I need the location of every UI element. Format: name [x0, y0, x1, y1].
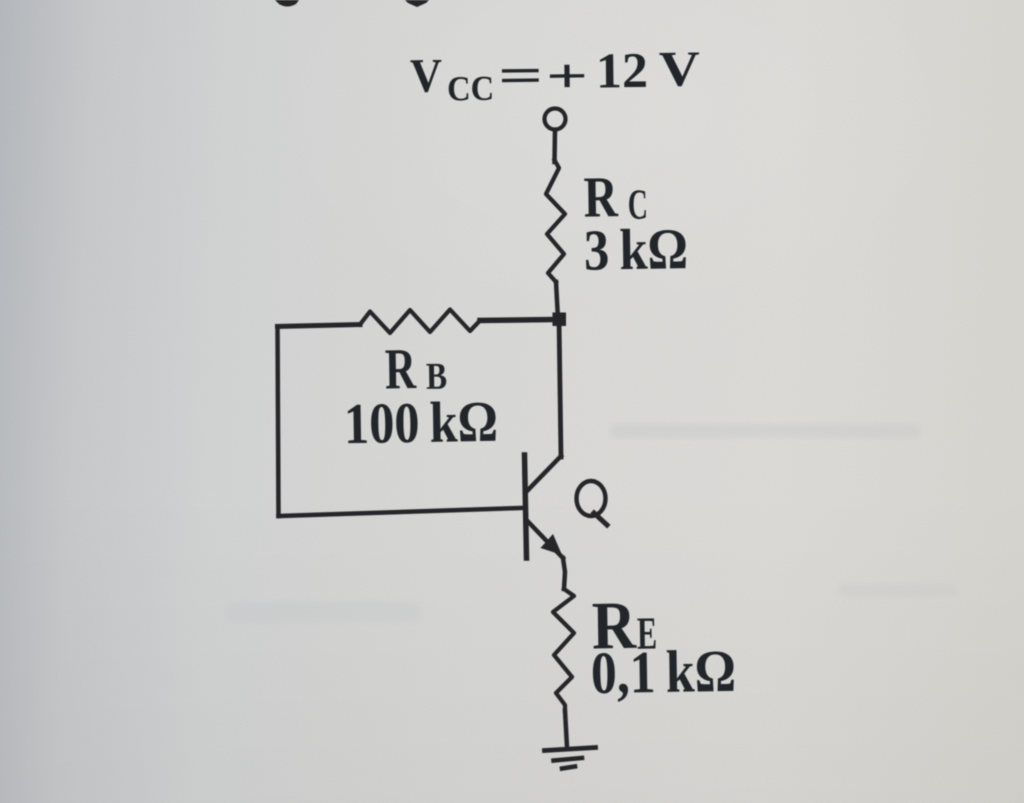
svg-text:CC: CC	[447, 69, 494, 109]
svg-text:0,1 kΩ: 0,1 kΩ	[590, 638, 736, 706]
label Rc	[583, 164, 648, 230]
ground symbol	[545, 748, 596, 751]
label RB	[384, 336, 447, 402]
svg-text:3 kΩ: 3 kΩ	[583, 216, 688, 283]
transistor Q1 base bar	[525, 455, 527, 558]
svg-text:+: +	[546, 50, 589, 104]
label RE	[591, 586, 657, 663]
label 100 kOhm	[343, 389, 498, 456]
label Q	[577, 481, 608, 525]
Vcc terminal circle	[545, 109, 566, 130]
resistor RE zigzag	[553, 589, 574, 711]
wire junction to RB zigzag	[480, 320, 553, 321]
svg-text:12: 12	[596, 42, 649, 99]
left vertical wire of feedback loop	[278, 327, 279, 517]
collector diagonal	[526, 456, 561, 492]
ghost bleed-through text patch lower left	[225, 584, 958, 622]
svg-text:100 kΩ: 100 kΩ	[343, 389, 498, 456]
svg-text:V: V	[410, 49, 443, 102]
resistor Rc zigzag	[546, 160, 565, 282]
wire RE to ground	[565, 711, 567, 747]
bottom wire of feedback loop to base	[279, 508, 523, 516]
collector vertical wire to junction	[559, 320, 561, 458]
wire terminal to Rc	[552, 130, 557, 162]
wire RB to left corner	[278, 325, 361, 327]
cropped text remnant top-left	[275, 0, 299, 7]
ghost bleed-through text patch upper right	[610, 424, 920, 438]
emitter wire down to RE	[563, 558, 565, 589]
label Vcc = +12 V	[410, 40, 701, 109]
emitter arrowhead	[541, 534, 563, 555]
svg-text:V: V	[659, 40, 701, 96]
cropped text remnant top-middle	[405, 0, 429, 7]
wire Rc to junction	[556, 282, 558, 319]
svg-text:=: =	[498, 49, 544, 103]
emitter diagonal	[527, 520, 564, 558]
resistor RB zigzag	[360, 310, 480, 334]
label 3 kOhm	[583, 216, 688, 283]
junction node dot	[553, 313, 567, 327]
label 0,1 kOhm	[590, 638, 736, 706]
